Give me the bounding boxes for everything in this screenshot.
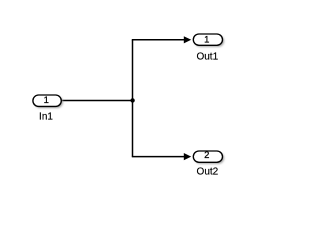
- inport In1: [33, 95, 63, 122]
- wire vertical branch: [132, 40, 134, 157]
- outport Out2: [193, 150, 224, 178]
- wire branch to Out2: [132, 153, 191, 160]
- junction: [130, 98, 134, 102]
- svg-text:Out1: Out1: [196, 51, 218, 62]
- svg-text:Out2: Out2: [197, 166, 219, 177]
- wire branch to Out1: [132, 36, 191, 43]
- wire In1 to junction: [62, 100, 134, 102]
- outport Out1: [193, 34, 224, 62]
- svg-text:2: 2: [204, 150, 209, 161]
- svg-text:In1: In1: [39, 111, 53, 122]
- svg-text:1: 1: [204, 34, 209, 45]
- svg-text:1: 1: [44, 95, 49, 106]
